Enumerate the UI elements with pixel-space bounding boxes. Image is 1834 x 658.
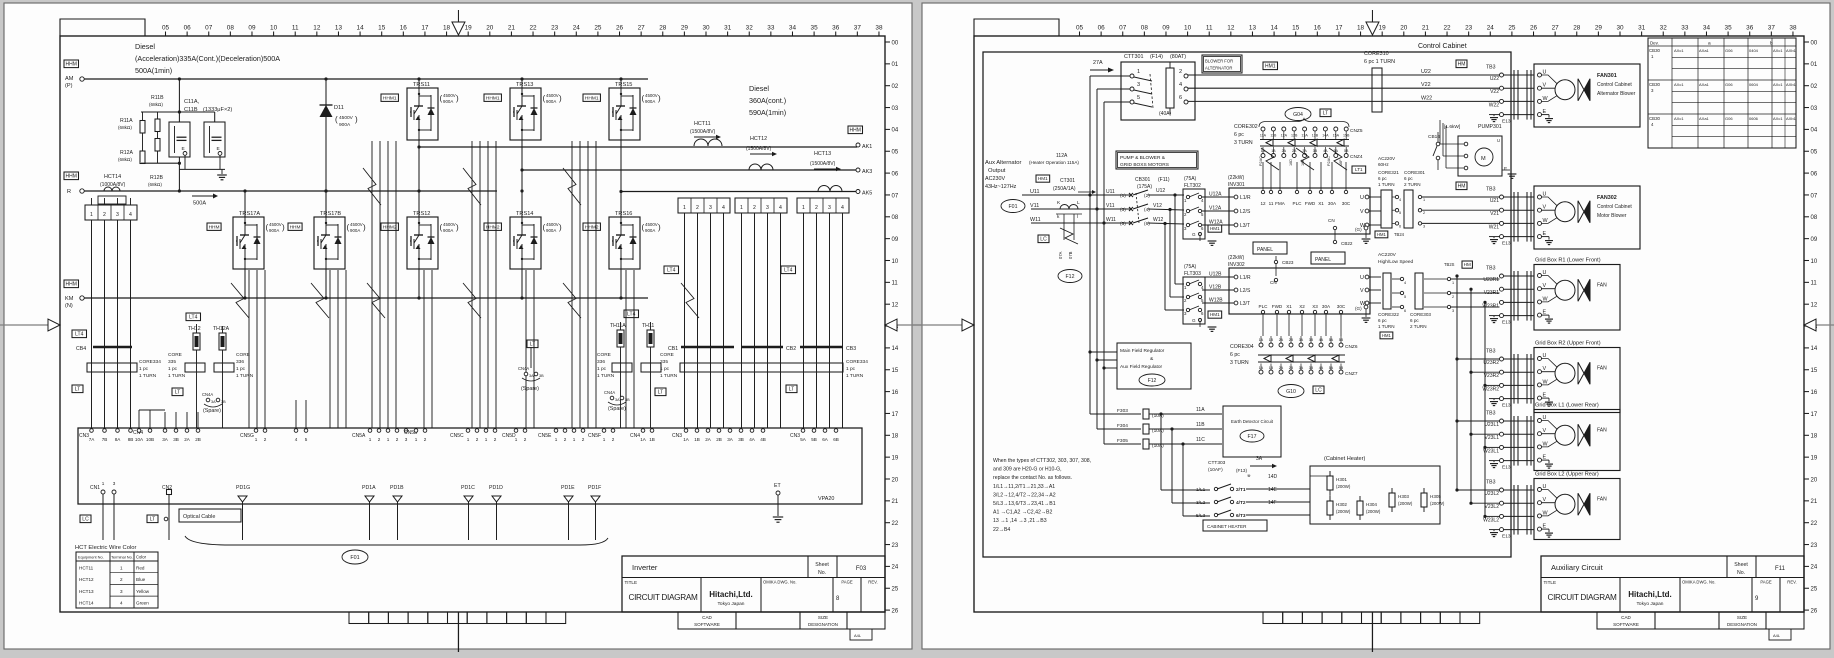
svg-text:2: 2 — [564, 437, 567, 442]
crossover arrows CNZ6-CNZ7 — [1258, 354, 1345, 356]
size box — [850, 629, 872, 640]
svg-text:23: 23 — [1811, 543, 1818, 549]
svg-text:U23L2: U23L2 — [1484, 491, 1499, 497]
svg-text:4: 4 — [295, 437, 298, 442]
size box — [1769, 629, 1791, 640]
svg-text:900A: 900A — [269, 228, 279, 233]
svg-text:V: V — [1360, 288, 1364, 294]
right ruler ticks — [1804, 41, 1809, 43]
svg-text:4: 4 — [1404, 281, 1406, 285]
svg-text:(40A): (40A) — [1159, 111, 1172, 117]
svg-text:18: 18 — [443, 25, 451, 32]
wire rows to FLT302 — [1148, 194, 1184, 196]
wire AK3 rail — [522, 169, 857, 171]
heater H305 — [1421, 493, 1427, 507]
svg-text:LT4: LT4 — [627, 312, 635, 318]
svg-text:V21: V21 — [1490, 211, 1499, 217]
svg-text:3: 3 — [709, 205, 712, 211]
regulator box — [1117, 343, 1191, 389]
svg-text:Output: Output — [988, 168, 1006, 174]
svg-text:8B: 8B — [128, 437, 134, 442]
svg-text:07B: 07B — [1068, 251, 1073, 259]
svg-text:19: 19 — [1379, 25, 1387, 32]
svg-text:HM: HM — [1464, 262, 1471, 267]
svg-text:GRID BOXS MOTORS: GRID BOXS MOTORS — [1120, 162, 1169, 168]
svg-text:900A: 900A — [350, 228, 360, 233]
svg-text:1 TURN: 1 TURN — [597, 373, 615, 379]
svg-text:W21: W21 — [1489, 224, 1500, 230]
svg-text:36: 36 — [832, 25, 840, 32]
connector CNZ4 row — [1261, 154, 1265, 158]
svg-text:HCT12: HCT12 — [79, 577, 94, 582]
svg-text:3: 3 — [1137, 82, 1140, 88]
svg-text:16D: 16D — [1289, 159, 1293, 166]
svg-text:CN4A: CN4A — [604, 390, 615, 395]
svg-text:14: 14 — [357, 25, 365, 32]
svg-text:CN3: CN3 — [79, 433, 89, 439]
svg-text:E13: E13 — [1502, 320, 1511, 326]
svg-text:HHM2: HHM2 — [585, 224, 599, 230]
unit box FAN301 — [1534, 64, 1640, 127]
svg-text:(200W): (200W) — [1336, 484, 1351, 489]
svg-text:FAN301: FAN301 — [1597, 73, 1617, 79]
svg-text:Equipment No.: Equipment No. — [78, 555, 104, 560]
svg-text:32: 32 — [746, 25, 754, 32]
svg-text:KM: KM — [65, 296, 74, 302]
wire bundle TRS12 down — [423, 270, 425, 428]
svg-text:3A: 3A — [211, 400, 216, 404]
svg-text:CN5C: CN5C — [450, 433, 464, 439]
label HHM1 of TRS13 — [484, 94, 501, 101]
svg-text:14: 14 — [892, 346, 899, 352]
svg-text:): ) — [282, 223, 285, 232]
svg-text:3B: 3B — [173, 437, 179, 442]
svg-text:CNZ6: CNZ6 — [1345, 344, 1358, 350]
svg-text:FAN: FAN — [1597, 428, 1607, 434]
svg-text:PD1G: PD1G — [236, 485, 250, 491]
svg-text:2B: 2B — [195, 437, 201, 442]
contact TB24 — [1395, 195, 1398, 198]
svg-text:U22: U22 — [1421, 69, 1431, 75]
svg-text:[1.6kW]: [1.6kW] — [1444, 124, 1460, 130]
page sheet — [4, 3, 912, 649]
wire CN4 risers — [139, 409, 165, 411]
svg-text:L2/S: L2/S — [1240, 209, 1251, 215]
svg-text:17: 17 — [1335, 25, 1343, 32]
svg-text:HCT12: HCT12 — [750, 136, 767, 142]
svg-text:U23R2: U23R2 — [1483, 360, 1499, 366]
svg-text:1A: 1A — [683, 437, 690, 442]
svg-text:F303: F303 — [1117, 408, 1128, 414]
svg-text:CT301: CT301 — [1060, 178, 1075, 184]
svg-text:1 TURN: 1 TURN — [846, 373, 864, 379]
svg-text:CORE321: CORE321 — [1378, 170, 1399, 175]
svg-text:4: 4 — [129, 212, 132, 218]
svg-text:27: 27 — [1552, 25, 1560, 32]
svg-text:Control Cabinet: Control Cabinet — [1597, 204, 1632, 210]
svg-text:02: 02 — [1811, 84, 1818, 90]
svg-text:12: 12 — [1260, 201, 1266, 206]
svg-text:4: 4 — [841, 205, 844, 211]
svg-text:AXb1: AXb1 — [1786, 116, 1797, 121]
svg-text:CORE301: CORE301 — [1404, 170, 1425, 175]
svg-text:CORE: CORE — [236, 352, 250, 358]
svg-text:(68kΩ): (68kΩ) — [118, 157, 132, 162]
svg-text:2B: 2B — [716, 437, 722, 442]
svg-text:U: U — [1360, 195, 1364, 201]
svg-text:Sheet: Sheet — [815, 562, 829, 568]
svg-text:4/T2: 4/T2 — [1236, 500, 1246, 506]
label cabinet heater — [1203, 520, 1267, 531]
svg-text:1: 1 — [485, 437, 488, 442]
svg-text:06: 06 — [1811, 171, 1818, 177]
svg-text:HM1: HM1 — [1210, 312, 1220, 317]
svg-text:38: 38 — [875, 25, 883, 32]
svg-text:Inverter: Inverter — [632, 563, 658, 572]
svg-text:2: 2 — [264, 437, 267, 442]
svg-text:CB30: CB30 — [1649, 116, 1661, 121]
svg-text:TRS12: TRS12 — [413, 211, 430, 217]
transistor TRS11 — [407, 88, 438, 140]
svg-text:20: 20 — [892, 477, 899, 483]
svg-text:(Acceleration)335A(Cont.)(Dece: (Acceleration)335A(Cont.)(Deceleration)5… — [135, 54, 280, 63]
svg-text:No.: No. — [1737, 570, 1745, 576]
svg-text:19: 19 — [1811, 455, 1818, 461]
transistor TRS14 — [510, 217, 541, 269]
svg-text:AK3: AK3 — [862, 169, 872, 175]
label F01 right page — [1001, 200, 1025, 213]
svg-text:FAN: FAN — [1597, 283, 1607, 289]
svg-text:18: 18 — [892, 434, 899, 440]
svg-text:2/T1: 2/T1 — [1236, 487, 1246, 493]
svg-text:CB3: CB3 — [846, 346, 856, 352]
svg-text:24: 24 — [1811, 565, 1818, 571]
svg-text:43Hz~127Hz: 43Hz~127Hz — [985, 184, 1017, 190]
unit box GridL1 — [1534, 410, 1620, 471]
svg-text:Tokyo Japan: Tokyo Japan — [1637, 601, 1664, 607]
svg-text:Auxiliary Circuit: Auxiliary Circuit — [1551, 563, 1604, 572]
right edge middle arrow — [1816, 324, 1834, 326]
svg-text:03: 03 — [1811, 106, 1818, 112]
svg-text:V23R2: V23R2 — [1484, 373, 1500, 379]
svg-text:06: 06 — [892, 171, 899, 177]
svg-text:18: 18 — [1811, 434, 1818, 440]
svg-text:(1500A/8V): (1500A/8V) — [810, 161, 836, 167]
svg-text:4500V: 4500V — [339, 115, 354, 121]
ground E13 of unit — [1490, 532, 1498, 534]
svg-text:TRS11: TRS11 — [413, 82, 430, 88]
svg-text:23: 23 — [892, 543, 899, 549]
svg-text:26: 26 — [616, 25, 624, 32]
svg-text:16E: 16E — [1301, 159, 1305, 166]
connector HCT11 pins — [678, 198, 730, 213]
svg-text:10: 10 — [1184, 25, 1192, 32]
svg-text:20: 20 — [1400, 25, 1408, 32]
svg-text:A4L: A4L — [854, 633, 862, 638]
svg-text:AXb1: AXb1 — [1786, 48, 1797, 53]
svg-text:CORE: CORE — [168, 352, 182, 358]
svg-text:16F: 16F — [1339, 159, 1343, 166]
svg-text:TB3: TB3 — [1486, 411, 1496, 417]
svg-text:ALTERNATOR: ALTERNATOR — [1205, 66, 1232, 71]
svg-text:5: 5 — [1404, 295, 1406, 299]
svg-text:5: 5 — [1137, 95, 1140, 101]
fan motor symbol of GridL2 — [1555, 494, 1575, 514]
svg-text:(175A): (175A) — [1137, 184, 1152, 190]
svg-text:Diesel: Diesel — [135, 42, 155, 51]
wires FLT303 inputs — [1175, 283, 1184, 285]
svg-text:14: 14 — [1811, 346, 1818, 352]
svg-text:H303: H303 — [1398, 494, 1409, 499]
svg-text:1: 1 — [90, 212, 93, 218]
svg-text:CB23: CB23 — [1282, 260, 1294, 265]
svg-text:(22kW): (22kW) — [1228, 175, 1244, 181]
svg-text:CN3: CN3 — [790, 433, 800, 439]
svg-text:3: 3 — [120, 589, 123, 594]
svg-text:Alternator Blower: Alternator Blower — [1597, 91, 1636, 97]
connector CNZ5 row — [1261, 127, 1265, 131]
label LT1 — [1352, 166, 1366, 173]
svg-text:(80AT): (80AT) — [1170, 54, 1186, 60]
label HM fan301 — [1456, 60, 1467, 68]
cable pass marks — [1513, 70, 1515, 120]
svg-text:(P): (P) — [65, 83, 73, 89]
svg-text:TB3: TB3 — [1486, 187, 1496, 193]
svg-text:PAGE: PAGE — [841, 580, 853, 585]
svg-text:1 pc: 1 pc — [139, 366, 149, 372]
svg-text:SOFTWARE: SOFTWARE — [694, 622, 720, 627]
svg-text:ET: ET — [774, 483, 781, 489]
svg-text:(F13): (F13) — [1236, 468, 1247, 473]
svg-text:G06: G06 — [1725, 48, 1733, 53]
wire snubber top rail — [141, 111, 215, 113]
svg-text:F01: F01 — [350, 555, 359, 561]
svg-text:CB4: CB4 — [76, 346, 86, 352]
svg-text:CN3: CN3 — [672, 433, 682, 439]
svg-text:3/L2: 3/L2 — [1196, 500, 1206, 506]
svg-text:(Spare): (Spare) — [521, 386, 539, 392]
svg-text:2: 2 — [494, 437, 497, 442]
svg-text:35: 35 — [811, 25, 819, 32]
svg-text:30A: 30A — [1328, 201, 1337, 206]
svg-text:FLT302: FLT302 — [1184, 183, 1201, 189]
svg-text:08: 08 — [1141, 25, 1149, 32]
svg-text:11: 11 — [1811, 281, 1818, 287]
svg-text:P2AC: P2AC — [1327, 156, 1331, 166]
svg-text:R11A: R11A — [120, 118, 133, 124]
svg-text:12: 12 — [1811, 303, 1818, 309]
svg-text:0606: 0606 — [1749, 116, 1759, 121]
svg-text:3: 3 — [113, 481, 116, 486]
svg-text:U11: U11 — [1030, 189, 1040, 195]
svg-text:CB30: CB30 — [1649, 82, 1661, 87]
svg-text:CAD: CAD — [702, 615, 712, 620]
fan blade symbol of FAN301 — [1578, 79, 1584, 101]
svg-text:E: E — [217, 146, 220, 152]
svg-text:1: 1 — [802, 205, 805, 211]
svg-text:26: 26 — [1530, 25, 1538, 32]
svg-text:4500V: 4500V — [269, 222, 282, 227]
svg-text:0604: 0604 — [1749, 82, 1759, 87]
svg-text:1: 1 — [573, 437, 576, 442]
svg-text:No.: No. — [818, 570, 826, 576]
svg-text:CN5A: CN5A — [352, 433, 366, 439]
svg-text:Tokyo Japan: Tokyo Japan — [718, 601, 745, 607]
svg-text:PANEL: PANEL — [1315, 257, 1331, 263]
svg-text:(200W): (200W) — [1366, 509, 1381, 514]
svg-text:09: 09 — [1811, 237, 1818, 243]
svg-text:V22: V22 — [1490, 89, 1499, 95]
title block — [622, 556, 885, 612]
svg-text:LT4: LT4 — [667, 268, 675, 274]
svg-text:Control Cabinet: Control Cabinet — [1597, 82, 1632, 88]
svg-text:29: 29 — [681, 25, 689, 32]
svg-text:6 pc 1 TURN: 6 pc 1 TURN — [1364, 59, 1395, 65]
contact bank CNZ5 bracket — [1259, 119, 1349, 128]
svg-text:4: 4 — [1399, 198, 1401, 202]
svg-text:R12A: R12A — [120, 150, 134, 156]
svg-text:(68kΩ): (68kΩ) — [118, 125, 132, 130]
svg-text:E13: E13 — [1502, 465, 1511, 471]
svg-text:AK5: AK5 — [862, 191, 872, 197]
svg-text:2: 2 — [753, 205, 756, 211]
svg-text:CORE334: CORE334 — [846, 359, 868, 365]
svg-text:1: 1 — [467, 437, 470, 442]
svg-text:05: 05 — [162, 25, 170, 32]
fan blade symbol of GridL1 — [1578, 424, 1584, 446]
core CORE322 — [1383, 273, 1391, 309]
wire bundle HCT11 down — [684, 213, 686, 428]
svg-text:1: 1 — [255, 437, 258, 442]
connector CNZ6 row — [1259, 343, 1263, 347]
svg-text:TB24: TB24 — [1394, 232, 1405, 237]
svg-text:2: 2 — [103, 212, 106, 218]
taps to gridL1 — [1457, 420, 1500, 422]
svg-text:900A: 900A — [339, 122, 351, 128]
svg-text:V11: V11 — [1030, 203, 1039, 209]
taps to field regulator — [1088, 350, 1091, 353]
svg-text:3: 3 — [116, 212, 119, 218]
wire bundle TRS16 down — [625, 270, 627, 428]
svg-text:Grid Box R2 (Upper Front): Grid Box R2 (Upper Front) — [1535, 341, 1601, 347]
svg-text:28: 28 — [659, 25, 667, 32]
svg-text:Grid Box R1 (Lower Front): Grid Box R1 (Lower Front) — [1535, 258, 1601, 264]
label HHM2 of TRS16 — [583, 223, 600, 230]
cable pass marks — [1513, 192, 1515, 242]
wires above inv301 — [1262, 162, 1264, 172]
svg-text:33: 33 — [767, 25, 775, 32]
svg-text:4: 4 — [120, 601, 123, 606]
svg-text:22→B4: 22→B4 — [993, 527, 1010, 533]
svg-text:X2: X2 — [1299, 304, 1305, 309]
svg-text:CN4A: CN4A — [518, 366, 529, 371]
svg-text:(6): (6) — [1144, 221, 1150, 227]
transistor TRS16 — [609, 217, 640, 269]
svg-text:C11B: C11B — [184, 107, 198, 113]
svg-text:LT: LT — [1323, 111, 1328, 117]
crossover arrows CNZ5-CNZ4 — [1260, 139, 1349, 141]
svg-text:W23L2: W23L2 — [1483, 517, 1499, 523]
cable pass marks — [1513, 354, 1515, 404]
svg-text:1/L1: 1/L1 — [1196, 487, 1206, 493]
svg-text:31: 31 — [724, 25, 732, 32]
svg-text:CORE322: CORE322 — [1378, 312, 1399, 317]
svg-text:2: 2 — [1423, 211, 1425, 215]
svg-text:3B: 3B — [539, 374, 544, 378]
svg-text:1: 1 — [555, 437, 558, 442]
svg-text:6 pc: 6 pc — [1410, 318, 1419, 323]
svg-text:CN1: CN1 — [90, 485, 100, 491]
terminal E row — [1500, 314, 1504, 318]
svg-text:G04: G04 — [1293, 112, 1303, 118]
svg-text:20: 20 — [486, 25, 494, 32]
right edge middle arrow — [897, 324, 933, 326]
svg-text:32: 32 — [1660, 25, 1668, 32]
label LT mid — [172, 388, 183, 396]
svg-text:V23R1: V23R1 — [1484, 290, 1500, 296]
svg-text:HHM: HHM — [209, 224, 220, 230]
svg-text:F01: F01 — [1009, 204, 1018, 210]
svg-text:TITLE: TITLE — [625, 580, 638, 585]
svg-text:Earth Detector Circuit: Earth Detector Circuit — [1231, 419, 1274, 424]
svg-text:10: 10 — [270, 25, 278, 32]
svg-text:16: 16 — [400, 25, 408, 32]
svg-text:TB3: TB3 — [1486, 65, 1496, 71]
svg-text:19: 19 — [892, 455, 899, 461]
svg-text:D11: D11 — [334, 105, 344, 111]
svg-text:14E: 14E — [1268, 487, 1278, 493]
svg-text:PD1C: PD1C — [461, 485, 475, 491]
svg-text:1: 1 — [1137, 69, 1140, 75]
cable pass marks — [1513, 271, 1515, 321]
svg-text:W22: W22 — [1489, 102, 1500, 108]
svg-text:HM1: HM1 — [1377, 232, 1387, 237]
svg-text:00: 00 — [892, 40, 899, 46]
svg-text:Hitachi,Ltd.: Hitachi,Ltd. — [1628, 590, 1672, 599]
ground of FAN301 E terminal — [1542, 114, 1550, 116]
svg-text:TB3: TB3 — [1486, 480, 1496, 486]
svg-text:H305: H305 — [1430, 494, 1441, 499]
ground E13 of unit — [1490, 239, 1498, 241]
svg-text:HHM1: HHM1 — [383, 95, 397, 101]
svg-text:CB22: CB22 — [1341, 241, 1353, 246]
svg-text:Red: Red — [136, 566, 145, 571]
svg-text:PD1D: PD1D — [489, 485, 503, 491]
svg-text:G06: G06 — [1725, 116, 1733, 121]
svg-text:(250A/1A): (250A/1A) — [1053, 186, 1076, 192]
svg-text:Color: Color — [136, 555, 147, 560]
svg-text:LC: LC — [1040, 237, 1047, 243]
terminal E row — [1500, 528, 1504, 532]
wire bundle TRS17A down — [248, 270, 250, 428]
svg-text:G: G — [1192, 232, 1196, 237]
svg-text:1B: 1B — [649, 437, 655, 442]
svg-text:HCT14: HCT14 — [104, 174, 121, 180]
drawing frame — [60, 36, 885, 612]
svg-text:21: 21 — [892, 499, 899, 505]
svg-text:TB2S: TB2S — [1444, 262, 1455, 267]
svg-text:07: 07 — [892, 193, 899, 199]
svg-text:FAN: FAN — [1597, 497, 1607, 503]
svg-text:LT4: LT4 — [784, 268, 792, 274]
svg-text:22: 22 — [529, 25, 537, 32]
svg-text:DESIGNATION: DESIGNATION — [1727, 622, 1757, 627]
svg-text:25: 25 — [594, 25, 602, 32]
top center arrow — [457, 10, 459, 22]
svg-text:): ) — [456, 223, 459, 232]
fan motor symbol of FAN301 — [1555, 80, 1575, 100]
svg-text:HM1: HM1 — [1382, 333, 1392, 338]
